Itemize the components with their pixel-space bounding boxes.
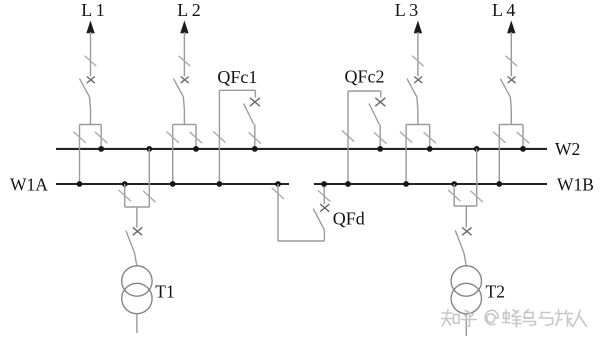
wire QFd right riser bbox=[323, 230, 325, 241]
wire T2 right leg from W2 bbox=[476, 149, 478, 206]
wire L3 upper bbox=[417, 32, 419, 76]
junction L1 right leg on W2 bbox=[98, 146, 104, 152]
wire T2 stem bbox=[465, 206, 467, 228]
wire L3 left leg to W1 bbox=[405, 125, 407, 185]
wire QFd left leg bbox=[277, 184, 279, 241]
bus selector box L1 bbox=[80, 124, 102, 126]
wire L1 right leg to W2 bbox=[100, 125, 102, 149]
transformer T2 bbox=[451, 266, 481, 296]
svg-text:W1A: W1A bbox=[10, 175, 48, 195]
disconnector slash T2 right leg bbox=[471, 191, 483, 202]
disconnector slash T2 left leg bbox=[448, 190, 460, 201]
junction L2 left leg on W1 bbox=[170, 181, 176, 187]
disconnector slash T1 left leg bbox=[119, 190, 131, 201]
wire L1 left leg to W1 bbox=[79, 125, 81, 185]
svg-text:W2: W2 bbox=[555, 139, 580, 159]
junction T1 left leg on W1 bbox=[122, 181, 128, 187]
wire L2 upper bbox=[183, 32, 185, 76]
disconnector slash L1 right leg bbox=[95, 132, 107, 143]
wire T1 right leg from W2 bbox=[148, 149, 150, 207]
transformer T1 bbox=[122, 266, 152, 296]
wire T2 tail bbox=[465, 314, 467, 336]
feeder arrow L2 bbox=[180, 21, 188, 34]
disconnector QS on L3 bbox=[412, 56, 424, 66]
disconnector slash L4 right leg bbox=[517, 132, 529, 143]
disconnector slash L4 left leg bbox=[493, 132, 505, 143]
disconnector QS on L4 bbox=[506, 56, 518, 66]
junction L3 right leg on W2 bbox=[427, 146, 433, 152]
wire QFc1 right stub bbox=[254, 90, 256, 97]
disconnector slash QFc1 left leg bbox=[213, 131, 225, 142]
svg-text:QFc1: QFc1 bbox=[217, 67, 257, 87]
junction L3 left leg on W1 bbox=[403, 181, 409, 187]
svg-text:QFc2: QFc2 bbox=[345, 67, 385, 87]
bus W1A bbox=[56, 183, 289, 185]
wire L4 left leg to W1 bbox=[498, 125, 500, 185]
junction T1 right leg on W2 bbox=[146, 146, 152, 152]
disconnector slash L3 left leg bbox=[400, 132, 412, 143]
disconnector slash QFd left leg bbox=[272, 188, 284, 199]
junction QFc1 on W1A bbox=[217, 181, 223, 187]
wire T2 box bottom bbox=[454, 205, 477, 207]
junction T2 right leg on W2 bbox=[474, 146, 480, 152]
junction QFc2 on W2 bbox=[377, 146, 383, 152]
disconnector slash L2 right leg bbox=[190, 132, 202, 143]
wire T1 tail bbox=[136, 314, 138, 333]
junction L4 right leg on W2 bbox=[520, 146, 526, 152]
circuit breaker QF on L2 bbox=[181, 77, 189, 84]
wire L1 upper bbox=[90, 32, 92, 76]
junction L2 right leg on W2 bbox=[193, 146, 199, 152]
disconnector slash QFc1 right leg bbox=[249, 132, 261, 143]
svg-text:W1B: W1B bbox=[557, 175, 594, 195]
junction L4 left leg on W1 bbox=[496, 181, 502, 187]
wire QFd right leg to W1B bbox=[323, 184, 325, 204]
junction QFd on W1A bbox=[275, 181, 281, 187]
circuit breaker QF on L3 bbox=[414, 77, 422, 84]
disconnector slash QFd right leg bbox=[318, 190, 330, 201]
wire QFc2 right stub bbox=[380, 91, 382, 98]
circuit breaker QFd bbox=[313, 209, 324, 230]
disconnector slash T1 right leg bbox=[143, 191, 155, 202]
bus selector box L3 bbox=[406, 124, 430, 126]
feeder arrow L3 bbox=[414, 21, 422, 34]
svg-text:L4: L4 bbox=[492, 0, 515, 20]
disconnector slash QFc2 right leg bbox=[374, 132, 386, 143]
disconnector QS on L2 bbox=[179, 56, 191, 66]
svg-text:T2: T2 bbox=[486, 282, 505, 302]
wire QFc1 top bbox=[219, 89, 255, 91]
circuit breaker QF on L4 bbox=[508, 77, 516, 84]
wire L1 to box bbox=[90, 97, 91, 125]
wire L2 to box bbox=[183, 97, 184, 125]
wire T1 stem bbox=[136, 207, 138, 228]
disconnector slash L1 left leg bbox=[73, 132, 85, 143]
bus W1B bbox=[314, 183, 547, 185]
junction QFc1 on W2 bbox=[252, 146, 258, 152]
wire T1 to transformer bbox=[134, 253, 137, 267]
wire T2 to transformer bbox=[464, 253, 467, 267]
wire L2 left leg to W1 bbox=[172, 125, 174, 185]
wire QFd bottom bbox=[278, 240, 324, 242]
wire L4 right leg to W2 bbox=[522, 125, 524, 149]
wire QFc1 left leg bbox=[218, 90, 220, 184]
junction QFd on W1B bbox=[321, 181, 327, 187]
wire L2 right leg to W2 bbox=[195, 125, 197, 149]
bus selector box L2 bbox=[173, 124, 196, 126]
feeder arrow L4 bbox=[507, 21, 515, 34]
bus selector box L4 bbox=[499, 124, 523, 126]
wire T2 left leg from W1 bbox=[453, 184, 455, 206]
disconnector slash QFc2 left leg bbox=[342, 130, 354, 141]
wire L4 to box bbox=[510, 97, 511, 125]
wire L3 right leg to W2 bbox=[429, 125, 431, 149]
circuit breaker QFc1 bbox=[250, 98, 260, 106]
wire T1 box bottom bbox=[125, 206, 150, 208]
wire QFc2 top bbox=[348, 90, 381, 92]
disconnector slash L3 right leg bbox=[424, 132, 436, 143]
svg-text:L2: L2 bbox=[177, 0, 200, 20]
svg-text:L1: L1 bbox=[81, 0, 104, 20]
disconnector QS on L1 bbox=[85, 56, 97, 66]
wire L4 upper bbox=[510, 32, 512, 76]
svg-text:QFd: QFd bbox=[333, 209, 365, 229]
svg-text:T1: T1 bbox=[155, 282, 174, 302]
feeder arrow L1 bbox=[86, 21, 94, 34]
disconnector slash L2 left leg bbox=[167, 132, 179, 143]
watermark 知乎 @蜂鸟与旅人 (drawn strokes) bbox=[442, 310, 587, 328]
wire L3 to box bbox=[417, 97, 418, 125]
bus W2 bbox=[56, 148, 547, 150]
wire QFc2 left leg bbox=[347, 91, 349, 184]
circuit breaker on T2 branch bbox=[462, 227, 471, 235]
junction L1 left leg on W1 bbox=[77, 181, 83, 187]
junction QFc2 on W1B bbox=[345, 181, 351, 187]
circuit breaker QFc2 bbox=[375, 98, 385, 106]
circuit breaker QF on L1 bbox=[87, 77, 95, 84]
circuit breaker on T1 branch bbox=[133, 227, 142, 235]
svg-text:L3: L3 bbox=[395, 0, 418, 20]
junction T2 left leg on W1 bbox=[451, 181, 457, 187]
wire QFc1 right leg to W2 bbox=[254, 125, 256, 149]
wire QFc2 right leg to W2 bbox=[379, 125, 381, 149]
wire T1 left leg from W1 bbox=[124, 184, 126, 207]
